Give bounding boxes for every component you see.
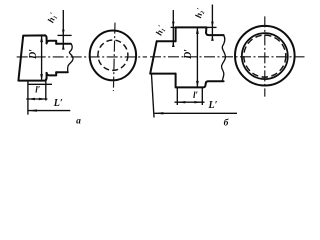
D' dimension line	[41, 36, 43, 80]
boss outline	[206, 33, 224, 83]
h2' dimension line	[211, 5, 213, 40]
h1' extension line (head top extended left)	[171, 26, 176, 28]
D' dimension line	[196, 28, 198, 87]
line below head (l' upper reference)	[28, 83, 52, 85]
svg-text:L′: L′	[208, 100, 218, 111]
l' extension lines	[28, 79, 46, 115]
shaft outline	[56, 44, 71, 73]
svg-text:l′: l′	[35, 85, 41, 95]
L' arrow (left)	[154, 112, 163, 114]
L' arrow (left)	[28, 109, 37, 111]
h1' dimension line	[62, 10, 64, 48]
h2' extension line (head top extended right)	[207, 26, 217, 28]
l' arrows (inside, pointing outward)	[177, 101, 185, 103]
L' dimension line	[154, 112, 237, 114]
shaft break line (wavy)	[68, 44, 73, 73]
l' arrows (inside, pointing outward)	[28, 98, 35, 100]
centerline (horizontal axis, figure a + circle view a)	[17, 56, 147, 58]
svg-text:б: б	[224, 117, 230, 128]
svg-text:D′: D′	[28, 49, 39, 60]
svg-text:D′: D′	[183, 49, 194, 60]
inner solid circle (boss)	[242, 33, 288, 79]
svg-text:L′: L′	[53, 98, 63, 109]
l' dimension line	[175, 101, 205, 103]
centerline (horizontal axis, figure b + circle view b)	[150, 56, 305, 58]
h1' arrows (outside)	[62, 30, 65, 36]
head (flange) outline	[176, 27, 207, 87]
outer circle	[235, 26, 295, 86]
vertical centerline	[264, 16, 266, 96]
L' extension line	[152, 75, 155, 118]
D' arrows (inside)	[40, 36, 43, 43]
D' arrows (inside)	[196, 27, 199, 34]
vertical centerline	[113, 23, 115, 91]
h1' extension line (head top level)	[58, 34, 72, 36]
l' dimension line	[26, 98, 47, 100]
L' dimension line	[28, 110, 70, 112]
hidden (dashed) circle	[244, 35, 286, 77]
h1' dimension line	[172, 10, 174, 46]
svg-text:а: а	[76, 117, 81, 127]
plug head (tapered) outline	[18, 35, 46, 80]
svg-text:h1′: h1′	[154, 24, 168, 37]
svg-text:l′: l′	[193, 90, 199, 100]
h2' arrows (outside)	[211, 22, 214, 28]
svg-text:h1′: h1′	[46, 11, 60, 24]
boss (collar) outline	[47, 41, 57, 76]
hidden (dashed) circle	[98, 40, 128, 70]
svg-text:h2′: h2′	[193, 7, 207, 19]
l' extension lines	[177, 88, 202, 105]
boss break line (wavy)	[222, 35, 226, 81]
outer circle	[90, 31, 136, 81]
h1' arrows (outside)	[172, 22, 175, 28]
shaft outline	[150, 41, 175, 73]
